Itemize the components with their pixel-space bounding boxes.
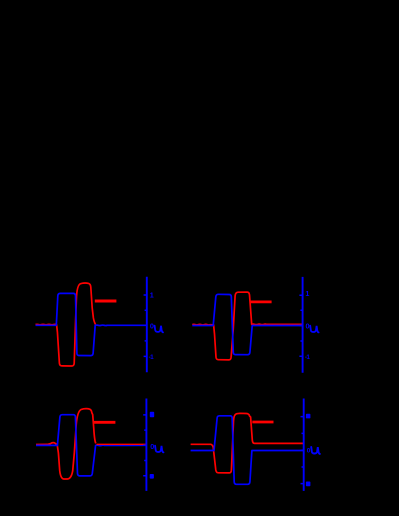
subplot2 red curve (192, 292, 302, 360)
subplot3 axis label u (155, 446, 163, 453)
subplot2 axis label u (310, 326, 318, 333)
svg-text:0: 0 (150, 322, 154, 331)
subplot2 axis ticks (299, 295, 302, 356)
subplot1 axis ticks (144, 295, 147, 356)
subplot2 vertical axis (302, 277, 304, 373)
subplot4 tick label -2 (306, 482, 311, 487)
subplot3 tick label -2 (150, 474, 154, 479)
svg-text:0: 0 (150, 442, 154, 451)
subplot4 axis ticks (301, 417, 304, 484)
subplot1 red annotation segment (95, 300, 117, 303)
subplot3 tick label 2 (150, 412, 154, 417)
subplot3 axis ticks (143, 415, 146, 476)
subplot1 blue curve (36, 293, 147, 355)
svg-text:0: 0 (306, 322, 310, 331)
svg-text:0: 0 (307, 447, 311, 454)
subplot2 blue curve (192, 294, 302, 354)
subplot3 blue curve (36, 415, 146, 476)
subplot3 vertical axis (145, 399, 147, 491)
subplot1 vertical axis (146, 277, 148, 373)
subplot4 blue curve (191, 416, 304, 485)
subplot4 red curve (191, 413, 304, 473)
subplot1 axis label u (155, 326, 163, 333)
subplot4 axis label u (311, 447, 320, 454)
subplot3 red midline right (97, 443, 147, 445)
subplot4 tick label 2 (306, 414, 311, 419)
subplot3 red annotation segment (93, 421, 115, 424)
svg-text:1: 1 (305, 289, 309, 298)
subplot1 red curve (36, 283, 96, 366)
subplot2 red annotation segment (251, 300, 272, 303)
subplot3 red curve (36, 409, 96, 479)
subplot4 red annotation segment (252, 421, 273, 424)
subplot4 vertical axis (303, 399, 305, 491)
svg-text:1: 1 (150, 290, 154, 299)
